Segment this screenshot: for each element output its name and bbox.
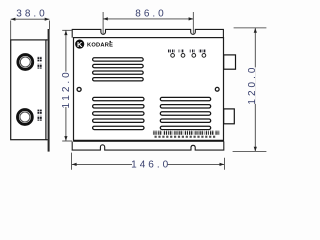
svg-text:K: K (77, 40, 83, 49)
svg-text:86.0: 86.0 (135, 9, 166, 20)
svg-text:120.0: 120.0 (247, 65, 258, 105)
svg-text:38.0: 38.0 (16, 9, 47, 20)
svg-text:146.0: 146.0 (131, 159, 171, 170)
svg-text:112.0: 112.0 (61, 69, 72, 108)
svg-text:KODARE: KODARE (87, 43, 113, 49)
